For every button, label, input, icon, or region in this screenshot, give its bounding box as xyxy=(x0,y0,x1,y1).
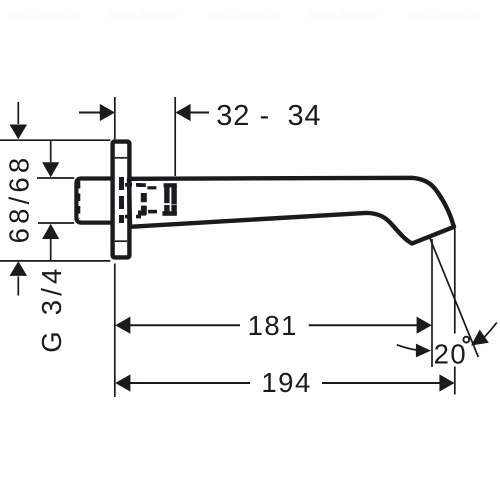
angle arc left piece xyxy=(397,345,417,350)
194 dim line xyxy=(130,382,440,384)
connector bottom extension (left) xyxy=(38,222,74,224)
32-34 right extension line xyxy=(174,97,176,176)
wall extension line (bottom) xyxy=(114,264,116,398)
arrow inner top (down) xyxy=(42,162,59,177)
32-34 dim line xyxy=(79,112,209,114)
escutcheon inner line top xyxy=(115,157,127,159)
escutcheon inner line bottom xyxy=(115,240,127,242)
svg-text:68/68: 68/68 xyxy=(4,154,35,244)
181 extension line right xyxy=(431,239,433,367)
arrow 20deg big (down-left) xyxy=(466,330,488,352)
svg-text:181: 181 xyxy=(248,310,298,341)
svg-text:Real-house: Real-house xyxy=(208,8,278,23)
inner dim line bottom tail xyxy=(50,239,52,261)
escutcheon top extension (left) xyxy=(0,139,110,141)
hidden internal dash group right xyxy=(164,183,177,187)
svg-text:194: 194 xyxy=(261,367,311,398)
svg-text:20: 20 xyxy=(434,339,468,370)
arrow 32-34 right xyxy=(175,104,190,121)
degree symbol xyxy=(463,337,469,343)
arrow 20deg small (right) xyxy=(416,344,431,358)
arrow 194 right xyxy=(439,374,454,391)
connector body behind wall xyxy=(76,179,112,223)
hidden internal dash group left xyxy=(137,183,177,216)
arrow 181 right xyxy=(417,317,432,334)
escutcheon bottom extension (left) xyxy=(0,260,110,262)
arrow 194 left xyxy=(115,374,130,391)
spout body outline xyxy=(129,178,454,244)
arrow 32-34 left xyxy=(100,104,115,121)
hidden pipe through escutcheon (dashed) xyxy=(119,177,124,223)
svg-text:Real-house: Real-house xyxy=(108,8,178,23)
181 dim line xyxy=(130,324,418,326)
svg-text:34: 34 xyxy=(288,100,322,132)
svg-text:Real-house: Real-house xyxy=(408,8,478,23)
spout top extension (left) xyxy=(37,177,74,179)
escutcheon plate xyxy=(113,142,130,258)
arrow 181 left xyxy=(115,317,130,334)
watermark row xyxy=(8,8,478,23)
wall extension line (top) xyxy=(114,97,116,139)
inner dim line top tail xyxy=(50,140,52,162)
svg-text:Real-house: Real-house xyxy=(308,8,378,23)
outer 68 dim line bottom tail xyxy=(17,276,19,295)
angle arc right piece xyxy=(484,323,497,338)
arrow 68 outer bottom (up) xyxy=(10,261,28,276)
arrow 68 outer top (down) xyxy=(10,125,28,140)
svg-text:32: 32 xyxy=(216,100,250,132)
20 degree slant line xyxy=(430,239,478,358)
194 extension line right xyxy=(454,229,456,395)
outer 68 dim line top tail xyxy=(17,102,19,124)
svg-text:Real-house: Real-house xyxy=(8,8,78,23)
svg-text:-: - xyxy=(260,100,270,132)
hidden dashes right of escutcheon xyxy=(125,183,141,187)
hidden dashes: connector thread xyxy=(78,181,81,219)
svg-text:G 3/4: G 3/4 xyxy=(36,264,67,352)
arrow inner bottom (up) xyxy=(42,224,59,239)
